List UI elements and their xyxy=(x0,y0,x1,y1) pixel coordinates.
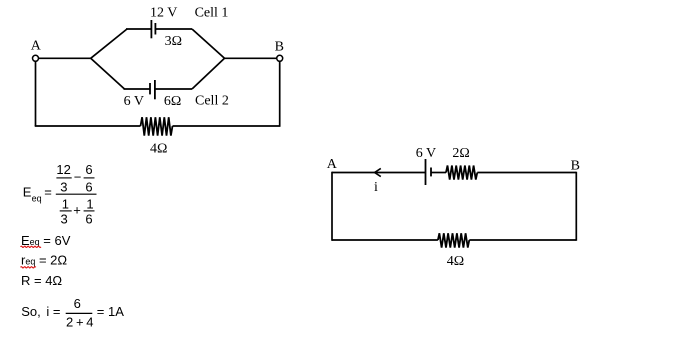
svg-text:+: + xyxy=(73,203,81,218)
wire left vertical xyxy=(35,61,37,126)
svg-text:A: A xyxy=(327,157,338,172)
svg-text:=: = xyxy=(44,184,52,199)
wire left vertical (right circuit) xyxy=(331,172,333,241)
wire upper-left diagonal xyxy=(91,29,127,58)
svg-text:12 V: 12 V xyxy=(150,5,177,20)
wire top left segment xyxy=(332,172,426,174)
wire lower branch left segment xyxy=(124,88,151,90)
spellcheck squiggle under req xyxy=(21,267,36,268)
wire bottom right segment (right circuit) xyxy=(469,239,576,241)
wire between battery and 2 ohm resistor xyxy=(431,172,446,174)
battery Cell 1 long plate xyxy=(150,20,152,38)
svg-text:2 + 4: 2 + 4 xyxy=(66,315,93,330)
svg-text:6Ω: 6Ω xyxy=(164,94,181,109)
wire right vertical xyxy=(279,61,281,126)
wire upper branch right segment xyxy=(155,28,192,30)
svg-text:i =: i = xyxy=(46,304,60,319)
wire top right segment xyxy=(477,172,576,174)
svg-text:1: 1 xyxy=(62,197,69,212)
svg-text:12: 12 xyxy=(56,162,70,177)
wire bottom right segment xyxy=(173,125,281,127)
svg-text:6: 6 xyxy=(85,162,92,177)
current arrow head xyxy=(375,168,381,176)
wire lower-right diagonal xyxy=(192,58,225,89)
svg-text:6 V: 6 V xyxy=(416,146,436,161)
fraction bar under first 1 xyxy=(60,210,72,212)
svg-text:3: 3 xyxy=(60,180,67,195)
node B terminal circle xyxy=(277,55,283,61)
svg-text:6 V: 6 V xyxy=(124,94,144,109)
svg-text:E: E xyxy=(23,184,32,199)
fraction bar under 12 xyxy=(56,177,71,179)
svg-text:4Ω: 4Ω xyxy=(150,141,167,156)
svg-text:Cell 2: Cell 2 xyxy=(195,93,229,108)
wire upper-right diagonal xyxy=(192,29,225,58)
wire A to left junction xyxy=(39,57,91,59)
svg-text:eq: eq xyxy=(32,193,42,203)
svg-text:6: 6 xyxy=(85,212,92,227)
fraction bar under second 1 xyxy=(84,210,95,212)
svg-text:req = 2Ω: req = 2Ω xyxy=(21,253,67,268)
svg-text:R = 4Ω: R = 4Ω xyxy=(21,273,62,288)
svg-text:4Ω: 4Ω xyxy=(447,254,464,269)
fraction bar under first 6 xyxy=(84,177,95,179)
battery Cell 2 long plate xyxy=(154,80,156,99)
wire lower branch right segment xyxy=(155,88,192,90)
svg-text:6: 6 xyxy=(85,180,92,195)
wire bottom left segment xyxy=(35,125,141,127)
battery 6V long plate xyxy=(425,159,427,185)
svg-text:= 1A: = 1A xyxy=(97,304,124,319)
svg-text:i: i xyxy=(374,180,378,195)
svg-text:So,: So, xyxy=(21,304,41,319)
svg-text:B: B xyxy=(571,158,580,173)
wire right vertical (right circuit) xyxy=(575,172,577,241)
main fraction bar xyxy=(56,193,97,195)
svg-text:3: 3 xyxy=(61,212,68,227)
wire upper branch left segment xyxy=(126,28,151,30)
resistor 4 ohm (left circuit) xyxy=(141,117,173,135)
svg-text:−: − xyxy=(74,170,82,185)
svg-text:2Ω: 2Ω xyxy=(452,146,469,161)
battery Cell 1 short plate xyxy=(154,23,156,35)
svg-text:A: A xyxy=(31,39,42,54)
svg-text:6: 6 xyxy=(74,296,81,311)
wire right junction to B xyxy=(225,57,277,59)
wire bottom left segment (right circuit) xyxy=(332,239,438,241)
wire lower-left diagonal xyxy=(91,58,125,89)
svg-text:3Ω: 3Ω xyxy=(165,34,182,49)
battery Cell 2 short plate xyxy=(149,83,151,94)
fraction bar (final) xyxy=(66,312,93,314)
node A terminal circle xyxy=(33,55,39,61)
svg-text:B: B xyxy=(275,39,284,54)
spellcheck squiggle under Eeq xyxy=(21,246,41,247)
resistor 2 ohm xyxy=(446,166,477,180)
battery 6V short plate xyxy=(430,168,432,177)
svg-text:1: 1 xyxy=(86,197,93,212)
resistor 4 ohm (right circuit) xyxy=(438,233,469,247)
svg-text:Cell 1: Cell 1 xyxy=(195,5,229,20)
